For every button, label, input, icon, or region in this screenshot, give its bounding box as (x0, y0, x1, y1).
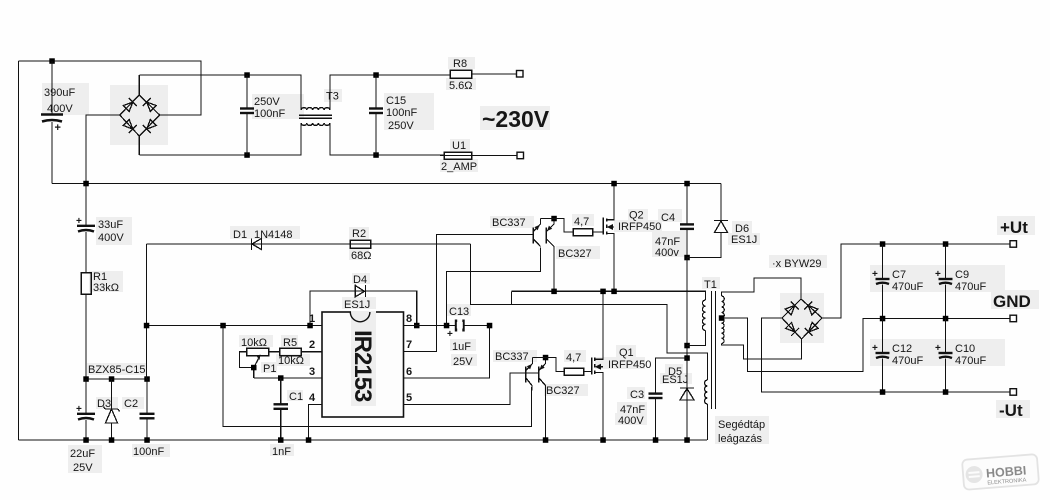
svg-text:400v: 400v (655, 247, 679, 259)
svg-text:C7: C7 (892, 269, 906, 281)
resistor 4,7 upper (573, 229, 593, 236)
svg-text:C1: C1 (289, 391, 303, 403)
node: C7 bottom / C12 top (880, 316, 886, 322)
wire: C4/D5 vertical down to ground (686, 258, 688, 441)
node: Q2 source on VS rail (611, 289, 617, 295)
svg-text:U1: U1 (452, 140, 466, 152)
transistor Q1 IRFP450 (591, 357, 593, 374)
node: C15 junction top (373, 72, 379, 78)
diode bridge2 bottom-right (805, 323, 818, 336)
svg-text:100nF: 100nF (254, 108, 285, 120)
svg-text:10kΩ: 10kΩ (278, 355, 304, 367)
svg-text:C10: C10 (955, 343, 975, 355)
svg-text:68Ω: 68Ω (351, 250, 371, 262)
node: lower driver output junction (543, 355, 549, 361)
svg-text:Q2: Q2 (629, 210, 644, 222)
capacitor C2 lower part shares riser (146, 378, 148, 380)
svg-text:D1: D1 (233, 229, 247, 241)
node: D5 bottom ground (684, 437, 690, 443)
svg-text:100nF: 100nF (133, 446, 164, 458)
svg-text:33uF: 33uF (98, 219, 123, 231)
wire: top mains wire from left border to bridge right vertex (19, 61, 202, 115)
transistor BC327 lower (538, 367, 540, 383)
IC U? IR2153 body (322, 312, 404, 417)
svg-text:P1: P1 (263, 363, 276, 375)
capacitor C4 47nF 400v (686, 184, 688, 224)
svg-text:BC337: BC337 (495, 351, 529, 363)
svg-text:4: 4 (309, 392, 316, 404)
node: junction 33uF branch (83, 181, 89, 187)
svg-text:Segédtáp: Segédtáp (718, 419, 765, 431)
capacitor 250V 100nF (246, 75, 248, 108)
wire: pin7 HO to upper driver base (404, 235, 534, 352)
diode bridge1 bottom-right (143, 120, 156, 133)
node: 22uF top (83, 376, 89, 382)
svg-text:~230V: ~230V (482, 106, 550, 132)
svg-text:C2: C2 (124, 398, 138, 410)
node: upper driver output junction (551, 216, 557, 222)
wire: zener rail BZX85-C15 (86, 378, 147, 380)
resistor R1 33k (81, 273, 91, 295)
node: cap 250V junction bottom (244, 152, 250, 158)
node: C15 junction bottom (373, 152, 379, 158)
svg-text:+: + (55, 122, 61, 134)
node: C4/D6 bottom junction (684, 255, 690, 260)
node: C10 bottom (943, 389, 949, 395)
svg-text:250V: 250V (388, 120, 414, 132)
bridge rectifier output x BYW29 (782, 299, 822, 339)
node: Q1 drain on VS rail (600, 289, 606, 295)
wire: GND rail (863, 318, 1013, 320)
capacitor C15 100nF 250V (375, 75, 377, 108)
svg-text:C3: C3 (630, 389, 644, 401)
node: C9 bottom / C10 top (943, 316, 949, 322)
diode bridge2 top-right (804, 302, 817, 315)
svg-text:BZX85-C15: BZX85-C15 (88, 364, 145, 376)
diode bridge2 top-left (785, 302, 798, 315)
node: D4 left riser junction (307, 323, 313, 329)
wire: left border vertical (18, 61, 20, 440)
svg-text:ES1J: ES1J (731, 234, 757, 246)
svg-text:+: + (872, 343, 878, 354)
svg-text:25V: 25V (73, 462, 93, 474)
node: C3 bottom ground (653, 437, 659, 443)
wire: primary bottom tap to T1 (687, 331, 706, 346)
node: 22uF bottom on ground (83, 437, 89, 443)
node: lower BC327 collector ground junction (543, 437, 549, 443)
transformer T3 common-mode choke (299, 108, 332, 126)
potentiometer P1 10k (247, 348, 269, 356)
svg-text:1N4148: 1N4148 (254, 229, 293, 241)
svg-text:6: 6 (406, 366, 412, 378)
svg-text:+: + (76, 404, 82, 415)
svg-text:1: 1 (309, 313, 315, 325)
node: cap 250V junction top (244, 72, 250, 78)
svg-text:R8: R8 (453, 58, 467, 70)
diode bridge1 bottom-left (123, 120, 136, 133)
svg-text:5: 5 (406, 392, 412, 404)
svg-text:R2: R2 (352, 228, 366, 240)
svg-text:C9: C9 (955, 269, 969, 281)
terminal: mains input bottom (517, 152, 524, 159)
svg-text:·x BYW29: ·x BYW29 (772, 258, 822, 270)
node: upper BC327 collector on VS rail (551, 289, 557, 295)
svg-text:22uF: 22uF (70, 448, 95, 460)
svg-text:ES1J: ES1J (344, 299, 370, 311)
transistor Q2 IRFP450 (602, 218, 604, 235)
capacitor C7 470uF (882, 244, 884, 278)
svg-text:7: 7 (406, 339, 412, 351)
capacitor C10 470uF (945, 319, 947, 353)
wire: pin8 VB wire to C13 (404, 325, 490, 327)
diode D6 ES1J (720, 184, 722, 221)
svg-text:4,7: 4,7 (574, 216, 589, 228)
svg-text:+: + (935, 343, 941, 354)
svg-text:33kΩ: 33kΩ (93, 282, 119, 294)
svg-text:470uF: 470uF (892, 281, 923, 293)
svg-text:25V: 25V (453, 356, 473, 368)
wire: bridge right vertex to +Ut rail (822, 244, 1013, 318)
svg-text:R5: R5 (283, 337, 297, 349)
capacitor C2 100nF (146, 379, 148, 413)
svg-text:4,7: 4,7 (566, 352, 581, 364)
wire: secondary bottom lead to bridge bottom vertex (722, 339, 802, 359)
svg-text:+: + (872, 269, 878, 280)
svg-text:2: 2 (309, 339, 315, 351)
svg-text:D4: D4 (353, 274, 367, 286)
svg-text:390uF: 390uF (44, 87, 75, 99)
transformer T1 aux winding (705, 380, 708, 404)
transformer T1 secondary winding upper (722, 296, 725, 318)
svg-text:250V: 250V (254, 96, 280, 108)
wire: HV+ bus y=183.5 (52, 183, 721, 185)
svg-text:+Ut: +Ut (1000, 218, 1028, 237)
node: secondary center tap (719, 315, 725, 321)
diode bridge2 bottom-left (786, 323, 799, 336)
svg-text:C15: C15 (386, 95, 406, 107)
svg-text:2_AMP: 2_AMP (441, 161, 477, 173)
watermark logo hobbi elektronika (962, 454, 1039, 490)
capacitor C9 470uF (945, 244, 947, 278)
terminal: mains input top (517, 71, 524, 78)
wire: bottom rail bridge to T3, to U1 (139, 123, 301, 155)
svg-text:ES1J: ES1J (662, 374, 688, 386)
resistor R2 68ohm (350, 240, 371, 248)
svg-text:10kΩ: 10kΩ (241, 337, 267, 349)
node: C1 junction on pin3 wire (278, 375, 284, 381)
svg-text:BC337: BC337 (492, 217, 526, 229)
fuse U1 2_AMP (444, 152, 472, 159)
capacitor C1 1nF (280, 378, 282, 404)
node: C7 top (880, 241, 886, 247)
svg-text:C13: C13 (449, 306, 469, 318)
svg-text:8: 8 (406, 313, 412, 325)
svg-text:1nF: 1nF (272, 446, 291, 458)
transformer T1 primary winding (702, 300, 705, 331)
wire: pin6 VS riser (404, 326, 490, 379)
wire: rail from bridge top to T3 and C15 to R8 (139, 75, 301, 110)
svg-text:IRFP450: IRFP450 (608, 359, 651, 371)
svg-text:+: + (447, 329, 453, 340)
capacitor 390uF 400V (51, 61, 53, 114)
transistor BC327 upper (545, 228, 547, 244)
wire: D1/R2 bootstrap-charge wire from VCC riser to aux tap (147, 243, 471, 245)
node: C4 top on HV bus (684, 181, 690, 187)
svg-text:leágazás: leágazás (718, 433, 763, 445)
wire: secondary top lead to bridge top vertex (722, 278, 802, 299)
wire: bridge left vertex to -Ut rail (762, 318, 1014, 392)
wire: lower driver junction to gate resistor (533, 358, 565, 372)
svg-text:1uF: 1uF (452, 341, 471, 353)
wire: upper driver junction to gate resistor (541, 219, 574, 233)
zener D3 (111, 379, 113, 409)
svg-text:400V: 400V (618, 415, 644, 427)
wire: VCC distribution riser to lower BC337 collector (223, 326, 532, 427)
svg-text:GND: GND (993, 292, 1031, 311)
svg-text:470uF: 470uF (955, 281, 986, 293)
capacitor C12 470uF (882, 319, 884, 353)
resistor R8 5.6ohm (450, 70, 472, 78)
wire: pin3 CT wire (254, 377, 322, 379)
svg-text:3: 3 (309, 366, 315, 378)
transistor BC337 lower (525, 367, 527, 383)
wire: bootstrap link upper BC337 collector to C13+ (447, 248, 541, 326)
diode D4 ES1J bypass over IC (310, 291, 417, 326)
resistor 4,7 lower (564, 368, 584, 375)
wire: VS rail (511, 291, 513, 304)
svg-text:BC327: BC327 (558, 248, 592, 260)
wire: ground bus bottom (19, 439, 708, 441)
node: C2 bottom (144, 437, 150, 443)
wire: VCC riser x=146.5 (D1 wire down to zener rail) (146, 244, 148, 379)
svg-text:400V: 400V (98, 232, 124, 244)
wire: secondary center tap to GND rail (722, 318, 883, 372)
svg-text:BC327: BC327 (546, 385, 580, 397)
diode D1 1N4148 (252, 238, 262, 250)
node: C1 bottom ground (278, 437, 284, 443)
svg-text:-Ut: -Ut (999, 401, 1023, 420)
diode bridge1 top-right (143, 98, 156, 111)
node: pin6 riser junction on pin8 wire (487, 323, 493, 329)
terminal GND (1010, 315, 1017, 322)
capacitor C3 47nF 400V (656, 358, 688, 393)
node: D3 top (109, 376, 115, 382)
node: Q1 source on ground (600, 437, 606, 443)
svg-text:100nF: 100nF (386, 107, 417, 119)
node: C12 bottom (880, 389, 886, 395)
svg-text:470uF: 470uF (892, 355, 923, 367)
transformer T1 secondary winding lower (722, 318, 725, 344)
wire: pin4 to ground (309, 405, 323, 441)
wire: pin5 LO to lower driver base (404, 373, 539, 405)
diode bridge1 top-left (123, 98, 136, 111)
svg-text:+: + (76, 216, 82, 227)
node: pin4 ground junction (306, 437, 312, 443)
terminal +Ut (1010, 241, 1017, 248)
bridge rectifier B1 (120, 95, 160, 136)
svg-text:D3: D3 (97, 398, 111, 410)
wire: VCC rail to pin1 (147, 325, 323, 327)
svg-text:IR2153: IR2153 (349, 330, 376, 402)
node: D3 bottom (109, 437, 115, 443)
svg-text:Q1: Q1 (619, 347, 634, 359)
transformer T1 core (711, 291, 713, 409)
svg-text:400V: 400V (47, 103, 73, 115)
svg-text:5.6Ω: 5.6Ω (449, 80, 473, 92)
node: D4 right / pin8 junction (414, 323, 420, 329)
node: junction top wire / 390uF (49, 58, 55, 64)
node: C3 top junction (684, 355, 690, 361)
transistor BC337 upper (532, 228, 534, 244)
svg-text:T1: T1 (704, 279, 717, 291)
svg-text:C4: C4 (661, 212, 675, 224)
node: bootstrap wire junction on pin8 wire (444, 323, 450, 329)
svg-text:+: + (935, 269, 941, 280)
capacitor 22uF 25V (85, 379, 87, 413)
node: primary bottom tap (684, 343, 690, 349)
svg-text:470uF: 470uF (955, 355, 986, 367)
svg-text:C12: C12 (892, 343, 912, 355)
capacitor C13 1uF 25V (455, 320, 457, 332)
node: VCC/lower-driver supply riser (220, 323, 226, 329)
node: C9 top (943, 241, 949, 247)
node: C2 top (144, 376, 150, 382)
capacitor 33uF 400V (85, 184, 87, 226)
resistor R5 10k (280, 348, 302, 356)
svg-text:IRFP450: IRFP450 (618, 221, 661, 233)
node: VCC/D1 riser junction (144, 323, 150, 329)
diode D5 ES1J (680, 387, 694, 389)
svg-text:T3: T3 (326, 91, 339, 103)
node: Q2 drain on HV bus (611, 181, 617, 187)
terminal -Ut (1010, 389, 1017, 396)
label backgrounds (decorative) (42, 57, 1039, 473)
